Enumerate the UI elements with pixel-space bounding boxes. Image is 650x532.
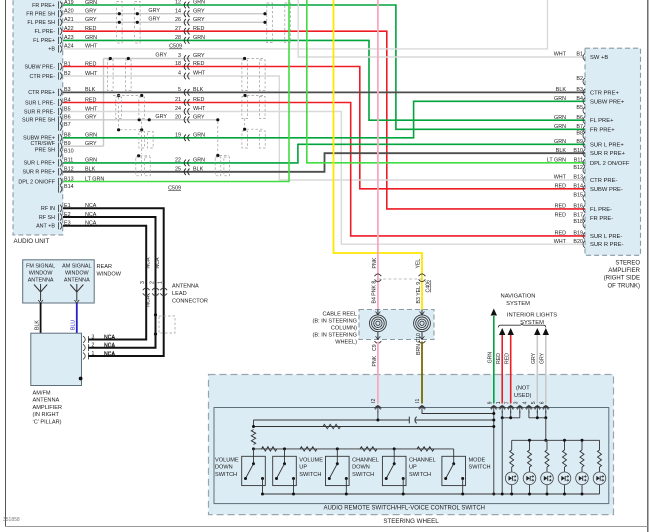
svg-text:C9: C9 xyxy=(372,344,378,351)
svg-text:B12: B12 xyxy=(573,165,583,171)
audio unit pin B1 xyxy=(59,63,62,70)
audio unit xyxy=(13,0,63,235)
audio unit pin B14 xyxy=(59,185,62,192)
amp pin B8 xyxy=(583,132,585,139)
svg-text:VOLUME: VOLUME xyxy=(215,458,239,464)
rail from I1 xyxy=(422,411,494,414)
svg-text:NCA: NCA xyxy=(146,257,152,268)
svg-text:FL PRE-: FL PRE- xyxy=(590,207,612,213)
svg-text:AMPLIFIER: AMPLIFIER xyxy=(33,405,63,411)
svg-text:MODE: MODE xyxy=(469,458,486,464)
shield chain B6 to B11 right xyxy=(217,122,219,155)
wire B12 BLK SUR R PRE+ : to amp B10 xyxy=(63,153,585,172)
amp pin B3 xyxy=(583,89,585,96)
svg-text:I1: I1 xyxy=(415,399,421,403)
amp pin B13 xyxy=(583,176,585,183)
audio unit pin B5 xyxy=(59,108,62,115)
connector pin 19 xyxy=(184,135,189,142)
amp pin B7 xyxy=(583,126,585,133)
capacitor xyxy=(408,417,410,424)
connector pin 20 xyxy=(184,117,189,124)
svg-text:SW +B: SW +B xyxy=(590,55,608,61)
connector pin 14 xyxy=(184,10,189,17)
pin9 vertical xyxy=(493,411,495,494)
rear window antenna box xyxy=(23,260,95,303)
svg-text:GRN: GRN xyxy=(488,352,494,364)
LED branch 5 xyxy=(581,440,583,450)
pin 3 xyxy=(516,406,523,409)
svg-text:BLK: BLK xyxy=(193,166,204,172)
svg-text:B10: B10 xyxy=(64,148,74,154)
LED branch 2 xyxy=(529,440,531,450)
wire LT GRN DPL2 from top edge to amp B11 xyxy=(307,0,585,163)
svg-text:WHT: WHT xyxy=(554,175,567,181)
amp pin B17 xyxy=(583,214,585,221)
amp pin B15 xyxy=(583,194,585,201)
pins 1-7-3 bus xyxy=(501,411,503,418)
svg-text:B3 YEL 9: B3 YEL 9 xyxy=(416,282,422,304)
svg-text:SUR L PRE-: SUR L PRE- xyxy=(590,234,622,240)
wire BRN to steering xyxy=(421,342,423,404)
svg-text:DOWN: DOWN xyxy=(352,465,370,471)
svg-text:RF SH: RF SH xyxy=(39,215,55,221)
svg-text:B20: B20 xyxy=(573,239,583,245)
svg-text:GRY: GRY xyxy=(540,352,546,364)
wire A22 RED FL PRE- : to amp B16 xyxy=(63,31,585,209)
svg-text:1: 1 xyxy=(92,351,95,357)
svg-text:CABLE REEL: CABLE REEL xyxy=(322,312,357,318)
svg-text:B7: B7 xyxy=(64,122,71,128)
svg-text:B3: B3 xyxy=(576,87,583,93)
switch VOLUME DOWN SWITCH xyxy=(242,456,266,485)
svg-text:SUR L PRE+: SUR L PRE+ xyxy=(24,161,55,167)
svg-text:RF IN: RF IN xyxy=(41,206,55,212)
svg-text:SUR R PRE+: SUR R PRE+ xyxy=(590,151,626,157)
svg-text:SWITCH: SWITCH xyxy=(409,472,431,478)
audio unit pin E2 xyxy=(59,213,62,220)
wire WHT SW+B from top edge to amp B1 xyxy=(298,0,585,57)
svg-text:FR PRE+: FR PRE+ xyxy=(32,3,55,9)
svg-text:4: 4 xyxy=(178,71,181,77)
diagram frame xyxy=(5,0,7,527)
svg-text:5: 5 xyxy=(531,401,537,404)
wire BLU antenna xyxy=(76,303,78,333)
svg-text:2: 2 xyxy=(149,281,155,284)
cable reel coil 1 xyxy=(376,321,380,325)
svg-text:GRY: GRY xyxy=(193,8,205,14)
amp pin B5 xyxy=(583,107,585,114)
wire B9 GRY CTR/SWF PRE SH xyxy=(63,145,104,147)
svg-text:PRE SH: PRE SH xyxy=(35,148,55,154)
svg-text:RED: RED xyxy=(555,204,566,210)
svg-text:12: 12 xyxy=(175,0,181,6)
pin 6 xyxy=(542,406,549,409)
svg-text:B4: B4 xyxy=(576,96,583,102)
svg-text:B7: B7 xyxy=(576,124,583,130)
svg-text:SWITCH: SWITCH xyxy=(215,472,237,478)
connector C406 xyxy=(378,278,422,280)
shield B11/B12 right xyxy=(216,154,219,157)
cable reel box xyxy=(359,310,434,340)
audio unit pin B9 xyxy=(59,143,62,150)
shield B1/B2 left xyxy=(108,60,114,91)
svg-text:GRY: GRY xyxy=(155,114,167,120)
AM/FM antenna amplifier box xyxy=(31,333,82,385)
audio remote switch box xyxy=(214,408,609,504)
wire BLK antenna xyxy=(40,303,42,333)
svg-text:SUR L PRE+: SUR L PRE+ xyxy=(590,142,624,148)
svg-text:NCA: NCA xyxy=(104,335,115,341)
svg-text:CTR/SWF: CTR/SWF xyxy=(30,141,55,147)
svg-text:AUDIO REMOTE SWITCH/HFL-VOICE: AUDIO REMOTE SWITCH/HFL-VOICE CONTROL SW… xyxy=(324,505,485,511)
svg-text:B8: B8 xyxy=(576,130,583,136)
pin I1 xyxy=(419,406,426,409)
svg-text:ANTENNA: ANTENNA xyxy=(172,284,199,290)
connector pin 25 xyxy=(184,169,189,176)
audio unit pin A19 xyxy=(59,1,62,8)
navigation system wire GRN xyxy=(493,316,495,404)
switch CHANNEL DOWN SWITCH xyxy=(326,456,350,485)
svg-text:AM SIGNAL: AM SIGNAL xyxy=(62,264,91,270)
svg-text:GRY: GRY xyxy=(193,53,205,59)
svg-text:BLK: BLK xyxy=(35,320,41,330)
svg-text:AUDIO UNIT: AUDIO UNIT xyxy=(14,238,50,245)
svg-text:FR PRE+: FR PRE+ xyxy=(590,127,615,133)
svg-text:SUR PRE SH: SUR PRE SH xyxy=(22,118,55,124)
svg-text:GRY: GRY xyxy=(148,16,160,22)
svg-text:GRN: GRN xyxy=(193,0,205,6)
svg-text:VOLUME: VOLUME xyxy=(299,458,323,464)
svg-text:RED: RED xyxy=(193,97,204,103)
audio unit pin B8 xyxy=(59,134,62,141)
wire PNK to steering xyxy=(377,342,379,404)
svg-text:INTERIOR LIGHTS: INTERIOR LIGHTS xyxy=(507,313,557,319)
svg-text:B6: B6 xyxy=(576,115,583,121)
svg-text:ANT +B: ANT +B xyxy=(36,224,55,230)
svg-text:FL PRE+: FL PRE+ xyxy=(590,118,614,124)
wire B8 GRN SUBW PRE+ : to amp B4 xyxy=(63,101,585,138)
wire E3 NCA ANT+B xyxy=(63,226,146,340)
cable reel coil 2 xyxy=(420,321,424,325)
connector pin 28 xyxy=(184,37,189,44)
svg-text:ANTENNA: ANTENNA xyxy=(64,278,90,284)
svg-text:(RIGHT SIDE: (RIGHT SIDE xyxy=(604,276,640,282)
svg-text:4: 4 xyxy=(523,401,529,404)
svg-text:B1: B1 xyxy=(576,52,583,58)
svg-text:GRN: GRN xyxy=(193,132,205,138)
svg-text:2: 2 xyxy=(92,343,95,349)
svg-text:3: 3 xyxy=(514,401,520,404)
svg-text:RED: RED xyxy=(555,183,566,189)
shield B11/B12 left xyxy=(137,154,140,157)
audio unit pin A23 xyxy=(59,37,62,44)
svg-text:DOWN: DOWN xyxy=(215,465,233,471)
svg-text:28: 28 xyxy=(175,35,181,41)
svg-text:LT GRN: LT GRN xyxy=(547,157,566,163)
svg-text:STEERING WHEEL: STEERING WHEEL xyxy=(383,518,439,525)
shield chain B6 to B11 left xyxy=(141,122,143,155)
amp pin B18 xyxy=(583,221,585,228)
svg-text:STEREO: STEREO xyxy=(615,261,640,267)
svg-text:BLK: BLK xyxy=(556,148,567,154)
svg-text:SUR R PRE+: SUR R PRE+ xyxy=(22,170,55,176)
shield drain bus vertical xyxy=(103,59,105,147)
svg-text:B14: B14 xyxy=(64,184,74,190)
wire YEL xyxy=(334,0,423,310)
svg-text:3: 3 xyxy=(92,334,95,340)
svg-text:14: 14 xyxy=(175,8,181,14)
pins 4-5-6 bus xyxy=(528,411,530,418)
svg-text:AM/FM: AM/FM xyxy=(33,391,51,397)
amp pin B9 xyxy=(583,141,585,148)
antenna lead connector xyxy=(143,288,150,296)
svg-text:‘C’ PILLAR): ‘C’ PILLAR) xyxy=(33,419,62,425)
svg-text:AMPLIFIER: AMPLIFIER xyxy=(608,268,640,274)
svg-text:GRY: GRY xyxy=(193,114,205,120)
audio unit pin B12 xyxy=(59,168,62,175)
svg-text:REAR: REAR xyxy=(97,264,113,270)
LED branch 6 xyxy=(599,440,601,450)
switch MODE SWITCH xyxy=(442,456,466,485)
svg-text:FL PRE-: FL PRE- xyxy=(35,29,56,35)
svg-text:SWITCH: SWITCH xyxy=(352,472,374,478)
audio unit pin E3 xyxy=(59,222,62,229)
svg-text:25: 25 xyxy=(175,166,181,172)
svg-text:B4 PNK 8: B4 PNK 8 xyxy=(372,281,378,304)
svg-text:B10: B10 xyxy=(573,148,583,154)
switch CHANNEL UP SWITCH xyxy=(382,456,406,485)
connector pin 26 xyxy=(184,19,189,26)
svg-text:B19: B19 xyxy=(573,231,583,237)
svg-text:WHT: WHT xyxy=(554,239,567,245)
svg-text:WHT: WHT xyxy=(193,71,206,77)
svg-text:3: 3 xyxy=(178,53,181,59)
svg-text:GRN: GRN xyxy=(193,35,205,41)
connector pin 27 xyxy=(184,28,189,35)
svg-text:B2: B2 xyxy=(576,76,583,82)
wire A20 GRY FR PRE SH xyxy=(63,13,265,15)
wire B3 BLK CTR PRE+ : straight to amp B3 xyxy=(63,91,585,93)
LED bottom bus connections xyxy=(501,493,504,496)
svg-text:COLUMN): COLUMN) xyxy=(331,326,357,332)
svg-text:YEL: YEL xyxy=(416,259,422,269)
audio unit pin E1 xyxy=(59,205,62,212)
svg-text:GRN: GRN xyxy=(193,158,205,164)
audio unit pin B7 xyxy=(59,123,62,130)
audio unit pin B3 xyxy=(59,89,62,96)
svg-text:CHANNEL: CHANNEL xyxy=(352,458,379,464)
svg-text:1: 1 xyxy=(496,401,502,404)
rail lower xyxy=(254,420,494,427)
svg-text:GRY: GRY xyxy=(148,8,160,14)
amp pin B12 xyxy=(583,167,585,174)
svg-text:24: 24 xyxy=(175,106,181,112)
svg-text:351858: 351858 xyxy=(3,517,20,523)
svg-text:ANTENNA: ANTENNA xyxy=(28,278,54,284)
svg-text:1: 1 xyxy=(158,281,164,284)
brace xyxy=(498,323,546,327)
svg-text:7: 7 xyxy=(505,401,511,404)
svg-text:RED: RED xyxy=(555,213,566,219)
svg-text:GRN: GRN xyxy=(554,115,566,121)
svg-text:SUBW PRE+: SUBW PRE+ xyxy=(590,99,625,105)
svg-text:20: 20 xyxy=(175,114,181,120)
svg-text:GRN: GRN xyxy=(554,139,566,145)
svg-text:6: 6 xyxy=(540,401,546,404)
shield B8 right xyxy=(243,128,246,131)
svg-text:RED: RED xyxy=(505,353,511,364)
svg-text:RED: RED xyxy=(555,231,566,237)
svg-text:GRN: GRN xyxy=(554,96,566,102)
svg-text:(IN RIGHT: (IN RIGHT xyxy=(33,412,60,418)
svg-text:NCA: NCA xyxy=(104,352,115,358)
svg-text:CTR PRE+: CTR PRE+ xyxy=(590,90,619,96)
svg-text:WHT: WHT xyxy=(193,106,206,112)
shield B1/B2 right xyxy=(247,58,263,60)
svg-text:B17: B17 xyxy=(573,213,583,219)
svg-text:SUBW PRE-: SUBW PRE- xyxy=(590,187,623,193)
wire E2 NCA RF SH xyxy=(63,217,156,348)
svg-text:3: 3 xyxy=(140,281,146,284)
svg-text:ANTENNA: ANTENNA xyxy=(33,398,60,404)
audio unit pin A24 xyxy=(59,45,62,52)
svg-text:CTR PRE-: CTR PRE- xyxy=(590,178,617,184)
LED branch 1 xyxy=(511,440,513,450)
amp pin B16 xyxy=(583,205,585,212)
pin 4 xyxy=(526,406,533,409)
steering wheel dashed box xyxy=(209,375,614,515)
audio unit pin B13 xyxy=(59,178,62,185)
svg-text:C509: C509 xyxy=(169,44,182,50)
svg-text:NCA: NCA xyxy=(146,295,152,306)
svg-text:WHT: WHT xyxy=(554,52,567,58)
svg-text:UP: UP xyxy=(409,465,417,471)
svg-text:B5: B5 xyxy=(576,105,583,111)
svg-text:CONNECTOR: CONNECTOR xyxy=(172,299,208,305)
svg-text:27: 27 xyxy=(175,26,181,32)
svg-text:SWITCH: SWITCH xyxy=(299,472,321,478)
svg-text:WINDOW: WINDOW xyxy=(29,271,54,277)
switch VOLUME UP SWITCH xyxy=(273,456,297,485)
pin 9 xyxy=(490,406,497,409)
connector pin 3 xyxy=(184,55,189,62)
svg-text:21: 21 xyxy=(175,97,181,103)
svg-text:SWITCH: SWITCH xyxy=(469,465,491,471)
rail from I2 through capacitor xyxy=(254,419,410,421)
shield E2 xyxy=(154,313,157,316)
connector pin 18 xyxy=(184,63,189,70)
svg-text:SUR R PRE-: SUR R PRE- xyxy=(590,242,624,248)
wire E1 NCA RF IN xyxy=(63,208,164,356)
LED top bus xyxy=(512,439,600,441)
audio unit pin B10 xyxy=(59,150,62,157)
wire A23 GRN FL PRE+ : to amp B6 xyxy=(63,40,585,120)
svg-text:SYSTEM: SYSTEM xyxy=(506,301,530,307)
svg-text:GRY: GRY xyxy=(155,53,167,59)
connector pin 5 xyxy=(184,89,189,96)
svg-text:NCA: NCA xyxy=(155,257,161,268)
amp pin B10 xyxy=(583,150,585,157)
pin 5 xyxy=(534,406,541,409)
svg-text:19: 19 xyxy=(175,132,181,138)
svg-text:26: 26 xyxy=(175,17,181,23)
svg-text:5: 5 xyxy=(178,87,181,93)
svg-text:NCA: NCA xyxy=(104,344,115,350)
svg-text:BLU: BLU xyxy=(71,320,77,330)
svg-text:18: 18 xyxy=(175,61,181,67)
svg-text:FR PRE-: FR PRE- xyxy=(590,216,613,222)
amp pin B2 xyxy=(583,78,585,85)
shield A-group right xyxy=(267,3,273,43)
svg-text:B15: B15 xyxy=(573,193,583,199)
shield A-group left xyxy=(117,2,123,44)
audio unit pin B11 xyxy=(59,159,62,166)
svg-text:WINDOW: WINDOW xyxy=(97,272,122,278)
svg-text:DPL 2 ON/OFF: DPL 2 ON/OFF xyxy=(590,161,630,167)
shield B4/B5 right xyxy=(243,94,246,97)
svg-text:B14: B14 xyxy=(573,183,583,189)
svg-text:USED): USED) xyxy=(514,393,532,399)
svg-text:OF TRUNK): OF TRUNK) xyxy=(607,283,640,289)
svg-text:B18: B18 xyxy=(573,219,583,225)
svg-text:DPL 2 ON/OFF: DPL 2 ON/OFF xyxy=(18,179,55,185)
wire A21 GRY FL PRE SH xyxy=(63,21,265,23)
svg-text:C509: C509 xyxy=(168,185,181,191)
svg-text:B11: B11 xyxy=(574,157,583,163)
amp pin B1 xyxy=(583,53,585,60)
svg-text:SUR L PRE-: SUR L PRE- xyxy=(25,100,55,106)
svg-text:WHEEL): WHEEL) xyxy=(335,340,357,346)
svg-text:PNK: PNK xyxy=(372,355,378,366)
stereo amplifier box xyxy=(585,48,641,255)
svg-text:RED: RED xyxy=(193,26,204,32)
pin 7 xyxy=(507,406,514,409)
svg-text:CTR PRE+: CTR PRE+ xyxy=(28,90,55,96)
svg-text:PNK: PNK xyxy=(372,257,378,268)
svg-text:B9: B9 xyxy=(576,139,583,145)
amplifier pins 3 2 1 xyxy=(83,336,89,343)
FM antenna symbol xyxy=(34,284,47,301)
svg-text:(NOT: (NOT xyxy=(516,386,530,392)
svg-text:+B: +B xyxy=(48,47,55,53)
pin I2 xyxy=(375,406,382,409)
svg-text:CHANNEL: CHANNEL xyxy=(409,458,436,464)
AM antenna symbol xyxy=(70,284,83,301)
amp pin B14 xyxy=(583,185,585,192)
wire PNK xyxy=(377,0,379,310)
LED branch 4 xyxy=(564,440,566,450)
svg-text:C406: C406 xyxy=(426,280,432,293)
shield B4/B5 left xyxy=(117,94,120,97)
svg-text:BLK: BLK xyxy=(193,87,204,93)
svg-text:UP: UP xyxy=(299,465,307,471)
svg-text:(B: IN STEERING: (B: IN STEERING xyxy=(313,333,357,339)
bottom rail xyxy=(262,493,599,495)
audio unit pin A22 xyxy=(59,28,62,35)
wire B2 WHT CTR PRE- : to amp B13 xyxy=(63,76,585,180)
svg-text:BRN C10: BRN C10 xyxy=(416,333,422,355)
wire B4 RED SUR L PRE- : to amp B19 xyxy=(63,103,585,236)
svg-text:9: 9 xyxy=(488,401,494,404)
svg-text:NAVIGATION: NAVIGATION xyxy=(501,294,536,300)
audio unit pin B6 xyxy=(59,116,62,123)
pin 1 xyxy=(499,406,506,409)
amp pin B6 xyxy=(583,117,585,124)
svg-text:BLK: BLK xyxy=(556,87,567,93)
svg-text:GRY: GRY xyxy=(193,17,205,23)
wire A19 GRN FR PRE+ : to amp B7 xyxy=(63,5,585,129)
amp pin B19 xyxy=(583,232,585,239)
